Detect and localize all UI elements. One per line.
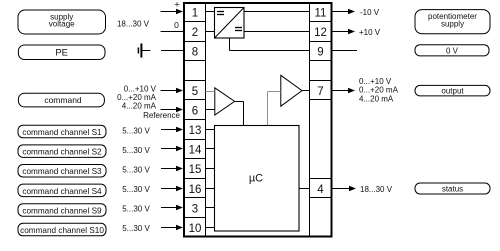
svg-text:12: 12 <box>314 27 327 39</box>
svg-text:5: 5 <box>192 86 198 98</box>
svg-text:command channel S9: command channel S9 <box>22 206 102 215</box>
svg-text:command channel S3: command channel S3 <box>22 167 102 176</box>
svg-text:5...30 V: 5...30 V <box>122 185 150 194</box>
svg-text:+: + <box>174 0 180 11</box>
svg-text:18...30 V: 18...30 V <box>117 19 150 28</box>
svg-text:3: 3 <box>192 203 198 215</box>
svg-text:18...30 V: 18...30 V <box>360 185 393 194</box>
svg-text:16: 16 <box>189 184 202 196</box>
svg-text:0...+20 mA: 0...+20 mA <box>359 86 399 95</box>
svg-text:4...20 mA: 4...20 mA <box>122 102 157 111</box>
svg-text:supply: supply <box>441 19 464 28</box>
svg-text:command: command <box>44 95 82 105</box>
svg-text:command channel S1: command channel S1 <box>22 128 102 137</box>
svg-text:command channel S2: command channel S2 <box>22 148 102 157</box>
svg-text:µC: µC <box>249 173 263 185</box>
svg-text:15: 15 <box>189 164 202 176</box>
svg-text:7: 7 <box>317 86 323 98</box>
svg-text:5...30 V: 5...30 V <box>122 224 150 233</box>
svg-text:output: output <box>441 87 464 96</box>
svg-text:5...30 V: 5...30 V <box>122 205 150 214</box>
svg-text:5...30 V: 5...30 V <box>122 146 150 155</box>
svg-text:5...30 V: 5...30 V <box>122 165 150 174</box>
svg-text:command channel S4: command channel S4 <box>22 187 102 196</box>
svg-text:6: 6 <box>192 106 198 118</box>
svg-text:4: 4 <box>317 184 324 196</box>
svg-text:voltage: voltage <box>49 20 75 29</box>
svg-text:4...20 mA: 4...20 mA <box>359 95 394 104</box>
svg-text:2: 2 <box>192 27 198 39</box>
svg-text:PE: PE <box>55 48 68 59</box>
svg-text:5...30 V: 5...30 V <box>122 126 150 135</box>
svg-text:0...+10 V: 0...+10 V <box>359 77 392 86</box>
svg-text:0: 0 <box>174 20 179 30</box>
svg-text:11: 11 <box>315 8 327 20</box>
svg-text:status: status <box>442 185 463 194</box>
svg-text:13: 13 <box>189 125 202 137</box>
svg-text:8: 8 <box>192 47 198 59</box>
svg-text:-10 V: -10 V <box>360 8 380 17</box>
svg-text:0 V: 0 V <box>446 46 459 55</box>
svg-text:1: 1 <box>192 8 198 20</box>
svg-text:Reference: Reference <box>143 111 180 120</box>
svg-text:10: 10 <box>189 223 202 235</box>
svg-text:9: 9 <box>317 47 323 59</box>
svg-text:14: 14 <box>189 145 202 157</box>
svg-text:command channel S10: command channel S10 <box>20 226 104 235</box>
svg-text:+10 V: +10 V <box>359 28 381 37</box>
